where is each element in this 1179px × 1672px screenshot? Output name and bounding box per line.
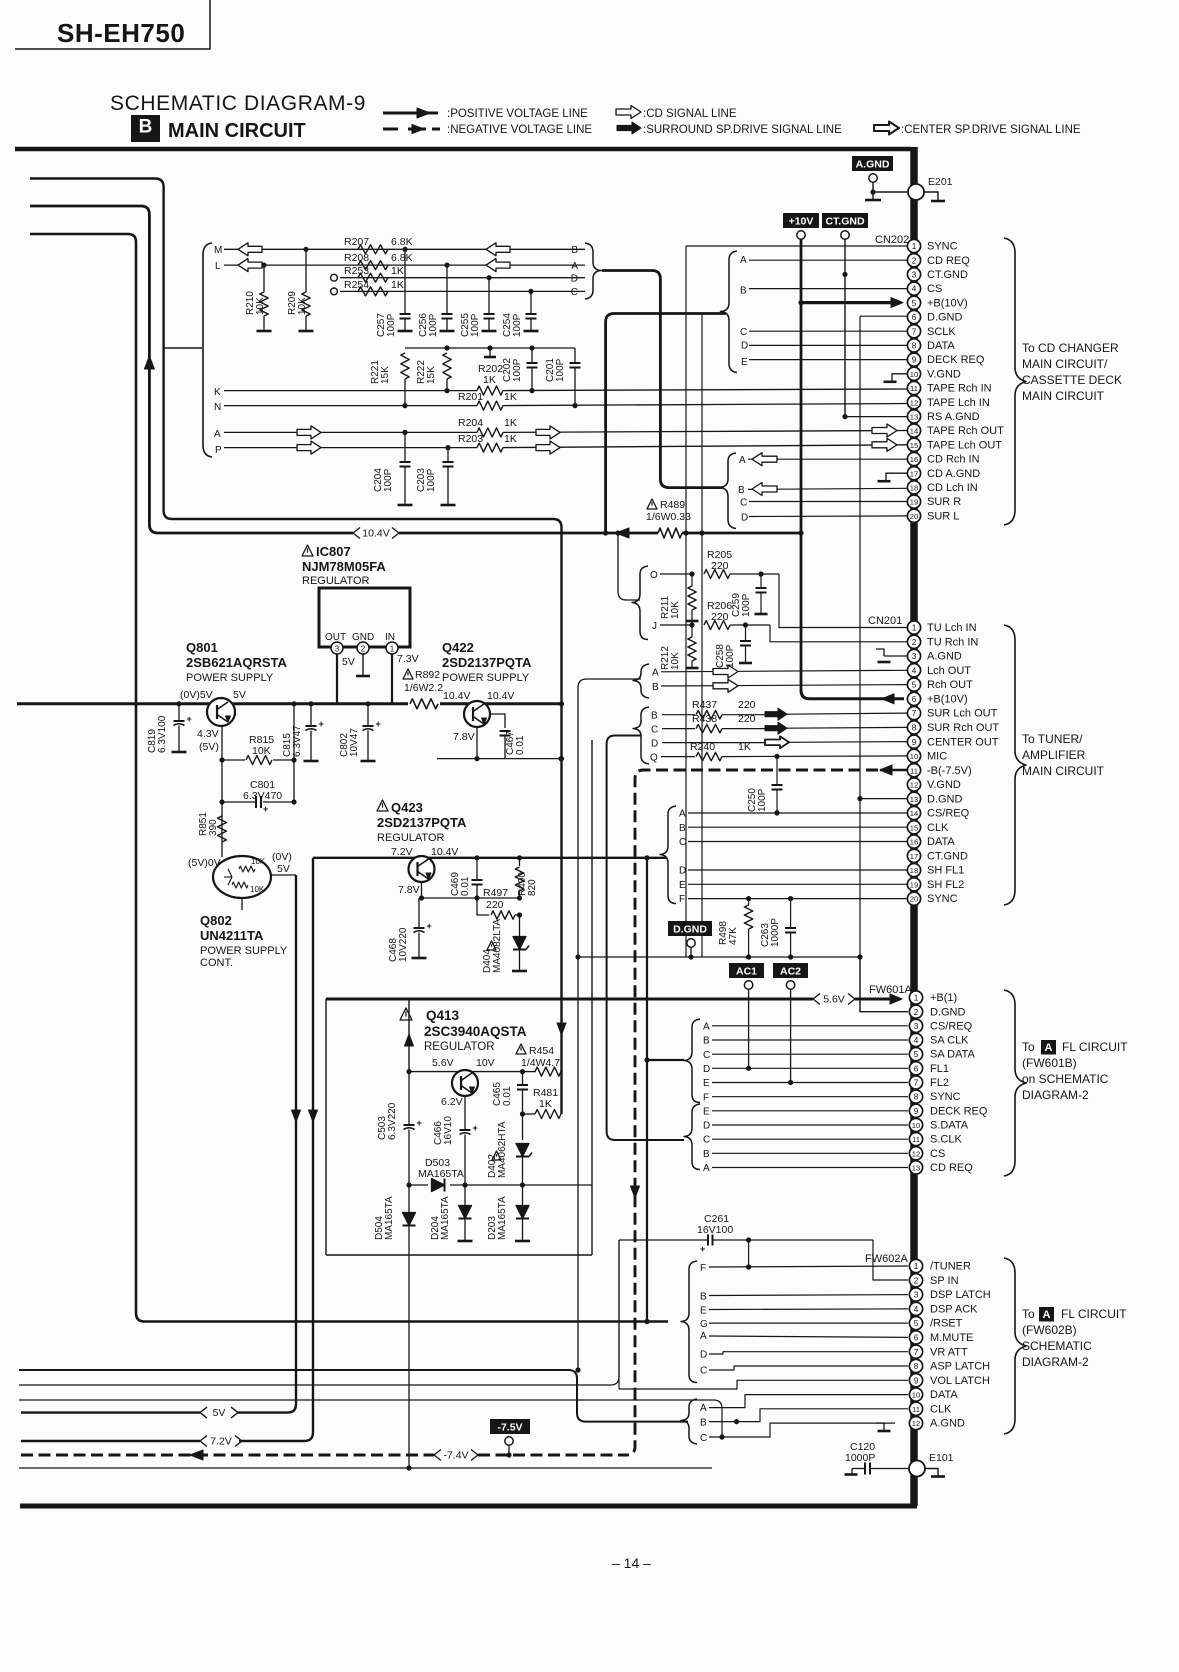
wire thick vertical x605.6 to bracket1 tip (606, 314, 726, 534)
Q413 box right edge / wire x592 (591, 740, 593, 1255)
svg-text:A: A (1043, 1309, 1051, 1321)
svg-text:C: C (740, 498, 747, 509)
bracket1 A B C D E for CN202 (721, 251, 738, 373)
AC1 label box (729, 963, 764, 978)
svg-text:12: 12 (912, 1419, 920, 1428)
svg-text:A: A (700, 1331, 707, 1342)
wire row R253 (340, 277, 585, 279)
svg-text:14: 14 (910, 809, 918, 818)
legend positive voltage line (383, 112, 438, 115)
svg-text:POWER SUPPLY: POWER SUPPLY (200, 945, 288, 957)
wire SYNC row (688, 898, 908, 900)
wire SUR Rch OUT row + R438 (662, 728, 695, 730)
svg-text:100P: 100P (741, 593, 752, 617)
svg-text:C: C (703, 1135, 710, 1146)
svg-text:100P: 100P (426, 468, 437, 492)
svg-text:1/6W2.2: 1/6W2.2 (404, 682, 443, 694)
wire Q423 bottom line (422, 897, 520, 899)
svg-text:TU Lch IN: TU Lch IN (927, 622, 977, 634)
bracket4 A-F FW601A (684, 1019, 700, 1103)
svg-text:B: B (651, 711, 658, 722)
svg-text:A: A (703, 1022, 710, 1033)
svg-text:16V10: 16V10 (443, 1116, 454, 1145)
svg-text:J: J (652, 621, 657, 632)
svg-text:E: E (741, 357, 748, 368)
svg-text:SP IN: SP IN (930, 1275, 959, 1287)
svg-text:R240: R240 (690, 741, 715, 753)
resistor R222 (443, 353, 451, 379)
resistor R253 (358, 273, 388, 282)
wire C465 column to diode row (522, 1114, 524, 1140)
wire feeder bracket2 BCDQ tip down to bracket5 tip (607, 736, 684, 1141)
svg-text:CLK: CLK (927, 822, 949, 834)
transistor Q423 (409, 856, 435, 882)
D.GND label box (668, 921, 712, 936)
CN202 pin circles (907, 239, 920, 252)
svg-text:15K: 15K (380, 366, 391, 384)
wire FL1 row (712, 1067, 908, 1069)
capacitor C259 (760, 574, 762, 588)
brace To FL CIRCUIT FW601B (1004, 990, 1026, 1176)
svg-text:OUT: OUT (325, 632, 346, 643)
capacitor C258 (745, 625, 747, 641)
wire Q413 emitter down (464, 1096, 466, 1130)
brace To CD CHANGER (1004, 238, 1026, 525)
arrowhead on R489 rail pointing left (616, 528, 629, 538)
svg-text:E201: E201 (928, 176, 953, 188)
svg-text:12: 12 (912, 1149, 920, 1158)
wire x619 vertical (618, 1240, 620, 1389)
svg-text:(5V): (5V) (199, 741, 219, 753)
svg-text:(0V): (0V) (272, 851, 292, 863)
svg-text:VOL LATCH: VOL LATCH (930, 1375, 990, 1387)
svg-text:SH FL1: SH FL1 (927, 865, 964, 877)
svg-text:7: 7 (912, 327, 917, 336)
ground at E101 (925, 1469, 938, 1476)
wire C503 column with up arrow (408, 999, 410, 1072)
svg-text:FL CIRCUIT: FL CIRCUIT (1062, 1040, 1128, 1054)
capacitor C255 (486, 275, 491, 280)
row2 top rail (405, 347, 575, 349)
resistor R208 (358, 261, 388, 270)
resistor R206 (704, 621, 730, 630)
svg-text:-B(-7.5V): -B(-7.5V) (927, 765, 972, 777)
svg-text:AC2: AC2 (780, 965, 801, 977)
down arrowhead on dashed vertical (631, 1186, 640, 1198)
svg-text:2SD2137PQTA: 2SD2137PQTA (442, 655, 532, 670)
svg-text::POSITIVE VOLTAGE LINE: :POSITIVE VOLTAGE LINE (447, 108, 588, 120)
Q413 box top 5.6V rail (326, 998, 813, 1001)
svg-text:1K: 1K (738, 741, 751, 753)
CN202 pin row wires (686, 245, 908, 247)
capacitor C467 (490, 714, 505, 728)
wire vertical pin1 feed (685, 246, 687, 957)
svg-text:7.8V: 7.8V (453, 731, 475, 743)
resistor R221 (401, 353, 409, 379)
wire CLK row (688, 826, 908, 828)
wire thick from BADC bracket down to bracket2 (602, 271, 722, 488)
wire S.DATA row (712, 1124, 908, 1126)
transistor Q422 (464, 701, 490, 727)
svg-text:MIC: MIC (927, 751, 947, 763)
5.6V voltage label (813, 994, 820, 1005)
svg-text:1K: 1K (391, 265, 404, 277)
wire DATA row FW602A (709, 1395, 908, 1408)
A.GND label box (852, 156, 893, 171)
svg-text:ASP LATCH: ASP LATCH (930, 1361, 990, 1373)
wire DATA row (688, 841, 908, 843)
svg-text:1: 1 (390, 644, 395, 653)
svg-text:CASSETTE DECK: CASSETTE DECK (1022, 373, 1122, 387)
svg-text:Rch OUT: Rch OUT (927, 679, 973, 691)
svg-text:100P: 100P (555, 358, 566, 382)
dashed -B(-7.5V) wire from pin11 (880, 769, 908, 772)
transistor Q413 (452, 1070, 478, 1096)
wire vertical D.GND spine (859, 316, 861, 1012)
svg-text:18: 18 (910, 866, 918, 875)
FW602A pin circles (909, 1259, 922, 1272)
svg-text:CT.GND: CT.GND (927, 269, 968, 281)
svg-text:TAPE Rch OUT: TAPE Rch OUT (927, 425, 1004, 437)
svg-text:R208: R208 (344, 252, 369, 264)
open arrows Lch Rch OUT (713, 665, 738, 678)
svg-text:5: 5 (912, 299, 917, 308)
open arrows CD Rch/Lch IN (752, 453, 777, 466)
svg-text:FW601A: FW601A (869, 984, 912, 996)
svg-text:16: 16 (910, 455, 918, 464)
svg-text:11: 11 (912, 1135, 920, 1144)
svg-text:R454: R454 (529, 1045, 554, 1057)
svg-text:6.2V: 6.2V (441, 1096, 463, 1108)
capacitor C256 (444, 263, 449, 268)
svg-text:S.CLK: S.CLK (930, 1134, 962, 1146)
svg-text:A: A (700, 1403, 707, 1414)
svg-text:6.3V220: 6.3V220 (387, 1102, 398, 1140)
wire +10V vertical down to CN201 pin6 (800, 239, 803, 691)
svg-text:B: B (700, 1418, 707, 1429)
svg-text:100P: 100P (470, 313, 481, 337)
Q413 box bottom edge (326, 1254, 592, 1256)
svg-text:19: 19 (910, 498, 918, 507)
svg-text:2: 2 (914, 1008, 919, 1017)
svg-text:2: 2 (912, 256, 917, 265)
svg-text:1: 1 (914, 1262, 919, 1271)
svg-text:SH-EH750: SH-EH750 (57, 18, 185, 48)
svg-text:R204: R204 (458, 417, 483, 429)
capacitor C250 (776, 756, 778, 785)
capacitor C202 (531, 348, 533, 363)
IC807 pin3 lead to 5V rail (336, 654, 338, 704)
svg-text:2: 2 (912, 638, 917, 647)
capacitor C263 (790, 899, 792, 928)
svg-text:0.01: 0.01 (460, 876, 471, 896)
svg-text:10.4V: 10.4V (431, 846, 458, 858)
bracket O J (632, 566, 648, 640)
svg-text:3: 3 (912, 271, 917, 280)
svg-text:R437: R437 (692, 699, 717, 711)
bracket7 A B C FW602A (681, 1399, 697, 1444)
svg-text:10K: 10K (251, 857, 266, 866)
svg-text:8: 8 (912, 342, 917, 351)
dots on 10V drop line (559, 701, 564, 706)
svg-text:C: C (703, 1050, 710, 1061)
wire vertical x702 (701, 314, 703, 958)
svg-text:V.GND: V.GND (927, 779, 961, 791)
svg-text:10.4V: 10.4V (362, 528, 389, 540)
svg-text:R489: R489 (660, 499, 685, 511)
svg-text:+: + (187, 714, 192, 724)
svg-text:D: D (700, 1350, 707, 1361)
svg-text:FL2: FL2 (930, 1077, 949, 1089)
svg-text:SH FL2: SH FL2 (927, 879, 964, 891)
svg-text:9: 9 (914, 1376, 919, 1385)
svg-text:100P: 100P (512, 358, 523, 382)
svg-text:A: A (571, 261, 578, 272)
wire vertical x294 rail to C801 (293, 704, 295, 802)
resistor R211 (691, 574, 693, 586)
wire CS/REQ row (688, 812, 908, 814)
svg-text:MA165TA: MA165TA (384, 1196, 395, 1240)
bracket5 E D C B A FW601A (684, 1104, 700, 1170)
svg-text:9: 9 (912, 738, 917, 747)
open arrow on M row (238, 243, 262, 256)
svg-text:D: D (679, 866, 686, 877)
svg-text:220: 220 (711, 611, 729, 623)
dashed -7.4V row (21, 1454, 434, 1457)
svg-text:6.3V470: 6.3V470 (243, 790, 282, 802)
svg-text:7.2V: 7.2V (391, 846, 413, 858)
wire Rch OUT row (661, 685, 908, 686)
svg-text:SYNC: SYNC (927, 241, 958, 253)
svg-text:O: O (650, 570, 658, 581)
svg-text:7: 7 (914, 1079, 919, 1088)
7.2V rail to bracket3 (313, 857, 667, 859)
svg-text:B: B (571, 245, 578, 256)
svg-text:REGULATOR: REGULATOR (302, 575, 369, 587)
svg-text:7.8V: 7.8V (398, 884, 420, 896)
Q423 labels (377, 800, 388, 811)
svg-text:D.GND: D.GND (927, 793, 963, 805)
wire vertical 7.2V drop with down arrow (312, 858, 314, 1432)
wire CT.GND vertical (844, 239, 846, 417)
resistor R490 (517, 855, 522, 860)
svg-text:15: 15 (910, 441, 918, 450)
resistor R851 (218, 816, 227, 842)
svg-text:V.GND: V.GND (927, 368, 961, 380)
svg-text:100P: 100P (757, 788, 768, 812)
svg-text:C: C (740, 327, 747, 338)
wire Q423 emitter down (421, 882, 423, 898)
IC807 pin1 lead (391, 654, 393, 704)
AC2 terminal (786, 981, 794, 989)
svg-text:15K: 15K (426, 366, 437, 384)
svg-text:SYNC: SYNC (927, 893, 958, 905)
wire D.GND bus to FW601A pin2 (860, 957, 908, 1012)
bracket B C D Q for CN201 (633, 707, 649, 764)
svg-text:11: 11 (910, 384, 918, 393)
svg-text:7.3V: 7.3V (397, 653, 419, 665)
svg-text:A: A (1045, 1042, 1053, 1054)
resistor R497 (477, 898, 489, 915)
wire ASP LATCH row (709, 1366, 908, 1370)
svg-text:DECK REQ: DECK REQ (927, 354, 985, 366)
svg-text:4: 4 (914, 1305, 919, 1314)
svg-text:5: 5 (914, 1050, 919, 1059)
svg-text::CD SIGNAL LINE: :CD SIGNAL LINE (643, 108, 737, 120)
svg-text:18: 18 (910, 484, 918, 493)
svg-text:B: B (139, 116, 153, 137)
svg-text:1: 1 (912, 624, 917, 633)
svg-text:SYNC: SYNC (930, 1091, 961, 1103)
wire top-left line C long vertical to FW602A G row (30, 234, 668, 1322)
legend surround sp.drive arrow (617, 122, 641, 134)
wire feeder A/B bracket tip down to 1370 line (578, 679, 641, 1370)
wire AC2 vertical (790, 989, 792, 1083)
svg-text:3: 3 (912, 652, 917, 661)
svg-text:10.4V: 10.4V (443, 690, 470, 702)
svg-text:6.3V47: 6.3V47 (292, 725, 303, 757)
wire SA DATA row (712, 1053, 908, 1055)
Q413 labels (400, 1008, 412, 1020)
svg-text:DATA: DATA (927, 836, 955, 848)
svg-text:6.3V100: 6.3V100 (157, 715, 168, 753)
IC807 pin 3 (331, 642, 343, 654)
svg-text:4.3V: 4.3V (197, 728, 219, 740)
resistor R498 (748, 899, 750, 905)
-7.5V terminal (505, 1437, 513, 1445)
svg-text:F: F (703, 1092, 709, 1103)
wire VR ATT row (709, 1352, 908, 1354)
svg-text:10V47: 10V47 (349, 728, 360, 757)
wire bracket2 rows to pins (748, 458, 908, 460)
svg-text:SUR Lch OUT: SUR Lch OUT (927, 708, 998, 720)
AC2 label box (773, 963, 808, 978)
+10V terminal (797, 231, 805, 239)
svg-text:-7.4V: -7.4V (443, 1450, 468, 1462)
svg-text:B: B (679, 823, 686, 834)
svg-text:B: B (740, 286, 747, 297)
wire Lch OUT row (661, 670, 908, 672)
svg-text:100P: 100P (428, 313, 439, 337)
svg-text:G: G (700, 1319, 708, 1330)
svg-text:CONT.: CONT. (200, 957, 233, 969)
svg-text:FL CIRCUIT: FL CIRCUIT (1061, 1307, 1127, 1321)
svg-text:12: 12 (910, 781, 918, 790)
B section black box (131, 115, 160, 142)
wire /TUNER row (709, 1266, 908, 1267)
svg-text:A: A (739, 455, 746, 466)
svg-text:2SD2137PQTA: 2SD2137PQTA (377, 815, 467, 830)
svg-text:9: 9 (912, 356, 917, 365)
svg-text:C: C (700, 1366, 707, 1377)
svg-text:CS/REQ: CS/REQ (927, 808, 970, 820)
resistor R489 on rail (658, 528, 682, 538)
wire S.CLK row (712, 1138, 908, 1140)
svg-text:5V: 5V (213, 1407, 226, 1419)
wire C467 bottom line (437, 758, 561, 760)
svg-text:To CD CHANGER: To CD CHANGER (1022, 341, 1119, 355)
svg-text:1K: 1K (483, 374, 496, 386)
+10V label box (783, 213, 819, 228)
svg-text:CN202: CN202 (875, 234, 909, 246)
wire Q422 emitter down (476, 727, 478, 759)
wire row N (224, 405, 477, 407)
wire row A (224, 431, 477, 433)
svg-text:C: C (700, 1433, 707, 1444)
svg-text:5.6V: 5.6V (432, 1057, 454, 1069)
svg-text:F: F (700, 1263, 706, 1274)
wire Q413 base line (409, 1071, 536, 1073)
svg-text:2SB621AQRSTA: 2SB621AQRSTA (186, 655, 288, 670)
svg-text:6: 6 (912, 695, 917, 704)
svg-text:MA4082LTA: MA4082LTA (492, 919, 503, 973)
svg-text:1K: 1K (504, 433, 517, 445)
wire row L (224, 264, 585, 266)
svg-text:+B(10V): +B(10V) (927, 297, 968, 309)
svg-text:17: 17 (910, 469, 918, 478)
svg-text:+B(1): +B(1) (930, 992, 957, 1004)
legend center sp.drive arrow (874, 122, 899, 135)
svg-text:A.GND: A.GND (930, 1418, 965, 1430)
svg-text:100P: 100P (512, 313, 523, 337)
wire row R254 (340, 290, 585, 292)
IC807 labels (302, 545, 313, 556)
svg-text:MA4062HTA: MA4062HTA (497, 1121, 508, 1178)
svg-text:D: D (703, 1121, 710, 1132)
svg-text:R438: R438 (692, 713, 717, 725)
open arrows row A (297, 426, 321, 439)
wire C261 to FW602A pin2 (873, 1240, 908, 1280)
svg-text:1K: 1K (504, 417, 517, 429)
svg-text:UN4211TA: UN4211TA (200, 928, 264, 943)
svg-text:5V: 5V (342, 656, 355, 668)
svg-text:10K: 10K (250, 885, 265, 894)
svg-text:CS: CS (927, 283, 942, 295)
IC807 pin 1 (386, 642, 398, 654)
wire branch vertical x647 to FW601A bracket and 7.2V rail (646, 858, 648, 1322)
resistor R210 (261, 263, 266, 268)
wire Q801 collector down (221, 726, 223, 857)
svg-text:CS/REQ: CS/REQ (930, 1020, 973, 1032)
svg-text:D: D (703, 1064, 710, 1075)
svg-text:CENTER OUT: CENTER OUT (927, 736, 999, 748)
wire x748.6 down to /TUNER row (748, 1240, 750, 1267)
10.4V voltage label (353, 528, 360, 539)
capacitor C469 (476, 858, 478, 880)
brace To TUNER AMPLIFIER (1004, 625, 1026, 905)
wire J to CN201 pin2 (770, 625, 908, 642)
svg-text:5V: 5V (233, 689, 246, 701)
ground at E201 (924, 192, 938, 200)
svg-text:DECK REQ: DECK REQ (930, 1105, 988, 1117)
svg-text:4: 4 (912, 666, 917, 675)
capacitor C468 (419, 897, 422, 899)
svg-text:SUR R: SUR R (927, 496, 961, 508)
svg-text:(0V)5V: (0V)5V (180, 689, 213, 701)
svg-text:DSP LATCH: DSP LATCH (930, 1289, 991, 1301)
svg-text:DSP ACK: DSP ACK (930, 1303, 978, 1315)
up arrowhead on line B vertical (144, 356, 154, 369)
legend negative voltage line (383, 128, 398, 131)
svg-text:DIAGRAM-2: DIAGRAM-2 (1022, 1355, 1089, 1369)
capacitor C801 (222, 801, 256, 803)
transistor Q801 (207, 698, 235, 726)
svg-text:820: 820 (527, 879, 538, 896)
wire CS row FW601A (712, 1152, 908, 1154)
svg-text:10: 10 (912, 1121, 920, 1130)
wire DSP ACK row (709, 1308, 908, 1311)
capacitor C201 (574, 348, 576, 363)
